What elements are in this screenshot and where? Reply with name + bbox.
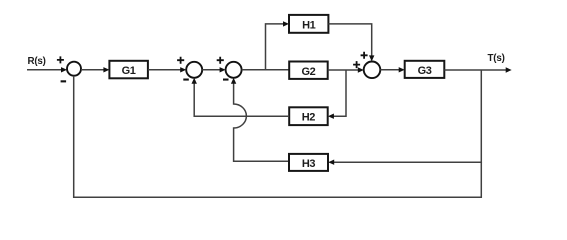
wire S4 to G3: [380, 69, 399, 71]
summing junction S1: [67, 62, 81, 76]
wire H2 output to S2 bottom: [194, 83, 289, 117]
svg-text:G1: G1: [122, 65, 136, 77]
wire S3 to G2 with tap node to H1: [242, 69, 290, 71]
sign - at S2: [183, 79, 189, 81]
svg-text:R(s): R(s): [28, 56, 46, 67]
summing junction S3: [226, 62, 242, 78]
wire S2 to summing junction S3: [202, 69, 220, 71]
block G1: [109, 61, 147, 79]
block H3: [289, 154, 328, 171]
svg-text:H3: H3: [302, 158, 316, 170]
wire output tap down to H3 input: [333, 70, 481, 162]
wire G1 to summing junction S2: [148, 69, 181, 71]
wire G3 to output T(s): [444, 69, 506, 71]
svg-text:H2: H2: [302, 112, 316, 124]
svg-text:G3: G3: [418, 65, 432, 77]
wire tap from G2 output down to H2 input: [333, 70, 346, 116]
sign - at S1: [61, 80, 67, 82]
wire tap up to H1 input: [266, 24, 285, 70]
wire input R(s) to summing junction S1: [27, 69, 62, 71]
block G2: [289, 62, 328, 79]
sign + left of S4: [353, 61, 360, 68]
wire S1 to G1: [81, 69, 104, 71]
sign + at S2: [177, 57, 184, 64]
wire S3 bottom down with hop over H2 line: [234, 83, 289, 162]
svg-text:H1: H1: [302, 19, 316, 31]
wire G2 to summing junction S4 with tap node to H2: [328, 69, 359, 71]
wire outer feedback loop from output tap to S1 bottom: [74, 76, 482, 198]
summing junction S4: [364, 62, 381, 79]
sign + at S1: [57, 56, 64, 63]
svg-text:G2: G2: [301, 66, 315, 78]
sign + at S3: [217, 57, 224, 64]
block H2: [289, 107, 328, 125]
wire H1 output to summing junction S4 top: [328, 24, 371, 57]
sign - at S3: [223, 79, 229, 81]
svg-text:T(s): T(s): [488, 53, 505, 64]
block G3: [405, 61, 445, 78]
summing junction S2: [186, 62, 202, 78]
block H1: [289, 15, 328, 33]
sign + above S4: [361, 52, 368, 59]
